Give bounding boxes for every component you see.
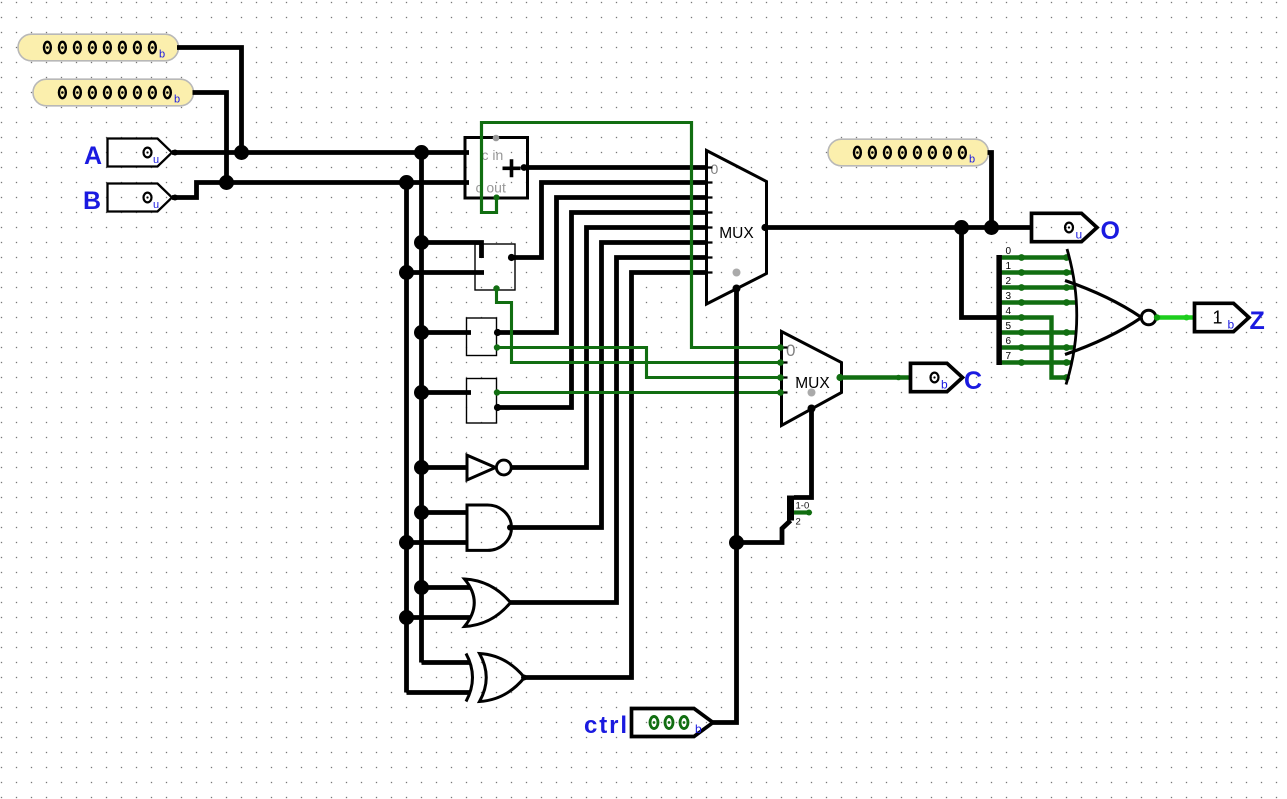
wire shifter U3 carry to MUX U9 input 2 [497,348,782,378]
wire input B bus [172,183,469,198]
wire P3 to node O [988,153,992,228]
wire splitter S1 bit 3 to NOR input [1001,300,1077,304]
svg-text:1-0: 1-0 [796,501,810,512]
NOT gate U5 [467,455,511,480]
wire A to XOR gate input 1 [422,660,471,665]
shifter U4 [467,379,502,424]
wire B vertical distribution bus [404,183,409,693]
svg-text:A: A [84,142,102,170]
junction A bus [414,145,429,160]
XOR gate U10 [466,654,527,702]
svg-text:ctrl: ctrl [584,712,627,739]
svg-text:c in: c in [482,147,504,163]
junction B bus [399,175,414,190]
wire shifter U2 carry to MUX U9 input 1 [497,289,782,363]
wire MUX U9 output to tag C [842,375,911,379]
OR gate U7 [465,579,511,627]
wire splitter S1 bit 0 to NOR input [1001,255,1070,259]
wire ctrl to splitter S2 input [737,521,791,543]
splitter S2 with labels 1-0 and 2 [787,496,812,528]
wire adder output to MUX U8 input 0 [524,165,707,170]
junction O-splitter [954,220,969,235]
svg-text:Z: Z [1250,307,1265,335]
wire B to XOR gate input 2 [407,690,471,695]
wire splitter S2 out 2 stub [794,510,808,514]
tag C pin dot [896,375,902,381]
wire splitter S1 bit 7 to NOR input [1001,360,1072,364]
AND gate U6 [467,505,513,550]
svg-text:b: b [695,722,702,736]
svg-text:0: 0 [711,161,719,177]
wire AND output to MUX U8 input 5 [510,243,707,528]
svg-text:4: 4 [1006,306,1012,317]
svg-text:5: 5 [1006,321,1012,332]
svg-text:2: 2 [1006,276,1012,287]
MUX U8 input pin stubs [707,168,713,273]
wire B to AND gate input 2 [407,540,468,545]
svg-text:0: 0 [1006,246,1012,257]
svg-text:0: 0 [786,341,795,360]
multiplexer U9 MUX [782,332,844,426]
tag B pin dot [172,195,178,201]
input tag A [108,139,173,167]
wire A vertical distribution bus [419,153,424,663]
wire A to NOT gate input [422,465,468,470]
wire ctrl bus [713,289,737,723]
wire P1 to node A [177,48,242,153]
wire input A bus [172,150,469,155]
probe display P2 value 00000000b [33,79,194,106]
junction A-NOT [414,460,429,475]
wire A to shifter U3 input [422,330,472,335]
output tag C [911,363,963,391]
wire B to OR gate input 2 [407,615,471,620]
wire shifter U4 carry to MUX U9 input 3 [497,391,782,394]
svg-text:1: 1 [1006,261,1012,272]
wire A to shifter U4 input [422,390,472,395]
svg-text:3: 3 [1006,291,1012,302]
junction ctrl-S2 [729,535,744,550]
wire shifter U4 output to MUX U8 input 3 [497,213,707,408]
junction A-U2 [414,235,429,250]
wire NOT output to MUX U8 input 4 [510,228,707,468]
wire OR output to MUX U8 input 6 [510,258,707,603]
svg-text:2: 2 [796,517,801,528]
junction A-U3 [414,325,429,340]
output tag O [1032,213,1098,241]
input tag ctrl value 000b [584,709,713,740]
adder carry-out pin dot [494,195,500,201]
wire MUX U8 output to tag O [767,225,1032,230]
wire splitter S1 bit 2 to NOR input [1001,285,1075,289]
junction P1/A [234,145,249,160]
wire splitter S1 bit 6 to NOR input [1001,345,1075,349]
splitter S1 with bit labels 0-7 [996,246,1025,366]
svg-text:b: b [174,94,180,106]
svg-text:O: O [1101,217,1120,245]
svg-text:b: b [1228,318,1235,332]
svg-text:C: C [964,367,982,395]
wire splitter S1 bit 5 to NOR input [1001,330,1076,334]
svg-text:b: b [941,378,948,392]
multiplexer U8 MUX [707,151,769,305]
wire splitter S1 bit 1 to NOR input [1001,270,1073,274]
NOR gate U11 [1065,249,1156,385]
wire P2 to node B [193,93,227,183]
wire NOR output to tag Z [1156,315,1195,320]
wire splitter S2 out 1-0 to MUX U9 select [794,409,812,498]
wire XOR output to MUX U8 input 7 [524,273,707,678]
wire A to AND gate input 1 [422,510,468,515]
svg-text:u: u [153,199,159,211]
svg-text:6: 6 [1006,336,1012,347]
MUX U9 input pin stubs [782,348,788,393]
svg-text:b: b [969,154,975,166]
input tag B [108,184,173,212]
svg-text:B: B [83,187,101,215]
shifter U2 [475,244,515,292]
svg-text:u: u [1076,228,1083,242]
wire adder carry-out to MUX U9 input 0 [482,123,782,348]
wire splitter S1 bit 4 to NOR input (detour) [1001,318,1068,378]
junction A-AND [414,505,429,520]
probe display P1 value 00000000b [18,34,179,61]
junction B-AND [399,535,414,550]
svg-text:b: b [159,49,165,61]
NOR gate input pin dots [1063,254,1070,381]
junction A-OR [414,580,429,595]
wire A to shifter U2 input a [422,243,482,259]
svg-text:7: 7 [1006,351,1012,362]
shifter U3 [467,318,502,356]
output tag Z [1195,303,1250,331]
junction P2/B [219,175,234,190]
probe display P3 value 00000000b [828,139,989,166]
MUX U9 input pin dots [777,344,784,351]
junction B-OR [399,610,414,625]
wire Z pin dots [1154,314,1160,320]
wire adder carry-out loop overlay [482,123,782,348]
junction B-U2 [399,265,414,280]
wire shifter U2 output to MUX U8 input 1 [512,183,707,258]
svg-text:u: u [153,154,159,166]
junction O-P3 [984,220,999,235]
junction A-U4 [414,385,429,400]
tag A pin dot [172,150,178,156]
wire node O to splitter S1 input [962,228,998,318]
svg-text:MUX: MUX [719,225,754,242]
wire B to shifter U2 input b [407,270,485,275]
svg-text:1: 1 [1212,308,1222,328]
wire A to OR gate input 1 [422,585,471,590]
adder U1 [465,135,528,201]
wire shifter U3 output to MUX U8 input 2 [497,198,707,333]
